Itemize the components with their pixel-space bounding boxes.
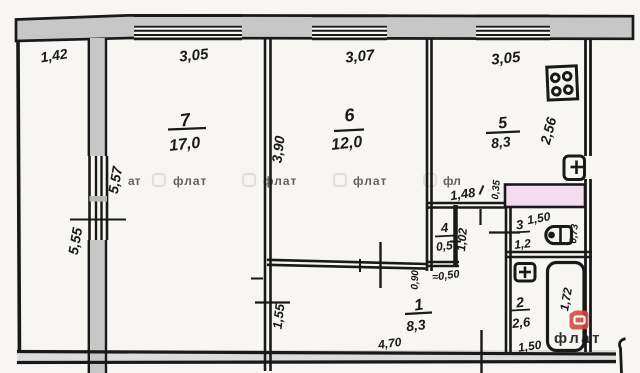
building edge hook bottom-right [619,339,625,373]
svg-text:0,73: 0,73 [568,223,581,244]
svg-text:0,5: 0,5 [435,238,453,254]
wall between room 6 and hall 1 [267,260,426,269]
ventilation shaft (pink block) [505,185,585,208]
interior load-bearing wall (left, gray) lower part [88,240,107,373]
svg-text:флат: флат [263,174,297,188]
wall between room 6 and kitchen 5 [427,39,432,272]
window W1 (room 7) [134,16,242,39]
svg-text:12,0: 12,0 [330,134,363,154]
bottom exterior wall fill [17,350,616,364]
svg-text:1,02: 1,02 [454,227,470,252]
svg-text:2,6: 2,6 [510,314,531,331]
svg-text:флат: флат [353,174,387,188]
red watermark logo [570,311,589,330]
top exterior wall band [16,15,633,41]
toilet/bath left wall [506,203,511,352]
room 7 label [168,109,206,155]
room 1 label [405,297,432,335]
kitchen bottom wall [426,203,506,208]
slash tick 1,48 [480,186,484,195]
watermark gray row [128,174,461,188]
left exterior wall [18,41,20,365]
svg-text:1,55: 1,55 [270,302,288,330]
tick on closet right wall [450,241,461,243]
ventilation box with plus (kitchen) [564,156,585,180]
room 2 label [510,294,531,331]
tick crossing bottom wall (4,70 / 1,50) [480,330,482,373]
room 4 label [435,220,455,254]
tick on wall 7/6 (1,55) [255,301,290,303]
closet 4 bottom wall [426,262,459,266]
svg-text:3,05: 3,05 [178,46,209,66]
closet 4 right wall [453,205,458,266]
svg-text:1,2: 1,2 [513,236,531,252]
svg-text:0,90: 0,90 [410,270,422,290]
svg-text:8,3: 8,3 [490,133,511,151]
bottom exterior wall lines [17,352,616,363]
svg-text:ат: ат [128,174,141,188]
tick below kitchen wall [479,209,481,225]
svg-text:3,05: 3,05 [490,49,521,69]
window W2 (room 6) [312,16,387,39]
tick on toilet left wall [489,231,520,233]
toilet WC [546,227,572,244]
dimension tick on left wall [70,219,126,221]
svg-text:8,3: 8,3 [405,316,426,334]
sink with plus (bathroom) [515,264,535,282]
svg-text:0,35: 0,35 [490,179,503,200]
window W3 (kitchen 5) [476,16,550,39]
interior load-bearing wall (left, gray) upper part [88,38,107,156]
small tick on hall wall [359,259,361,272]
svg-text:3,07: 3,07 [344,47,375,67]
long tick on hall wall [379,242,381,288]
right wall of kitchen / sanitary block [586,39,591,353]
svg-text:флат: флат [554,330,602,347]
room 3 label [513,217,532,252]
svg-text:3,90: 3,90 [268,135,287,164]
svg-text:17,0: 17,0 [168,135,201,155]
room 5 label [486,115,520,152]
room 6 label [330,105,364,154]
wall between room 7 and room 6 [265,39,271,372]
wall between toilet 3 and bathroom 2 [506,252,592,257]
svg-text:фл: фл [443,174,461,188]
tick on wall 7/6 upper [251,278,263,280]
gas stove [547,66,578,100]
bathtub [548,263,585,351]
hatched opening in left wall [88,156,109,240]
svg-text:флат: флат [173,174,207,188]
